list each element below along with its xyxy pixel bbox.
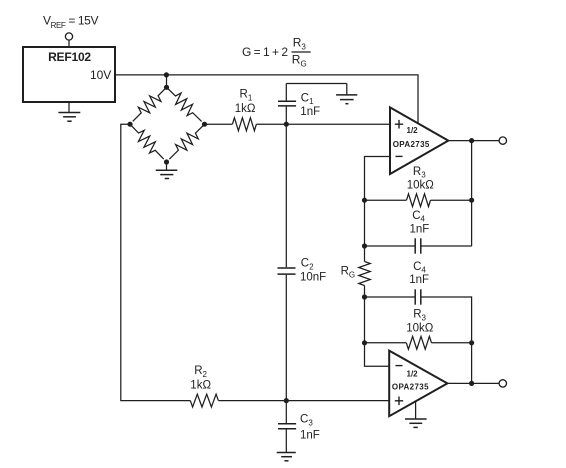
svg-text:G = 1 + 2: G = 1 + 2 <box>242 45 288 59</box>
wire R2 to op-amp U1b plus input <box>218 400 389 402</box>
voltage reference U2 REF102 <box>23 47 115 102</box>
node output U1a <box>469 138 474 143</box>
node bridge bottom <box>164 159 169 164</box>
svg-text:1kΩ: 1kΩ <box>235 103 256 115</box>
wire 10V rail to op-amp U1a V+ <box>115 75 418 124</box>
op-amp U1a OPA2735 <box>390 107 448 174</box>
svg-text:1nF: 1nF <box>409 274 429 286</box>
ground below C3 <box>277 453 296 461</box>
resistor R3 top feedback <box>365 166 472 207</box>
capacitor C2 <box>278 124 327 400</box>
wire right feedback column bottom <box>470 297 473 383</box>
wire bridge left to left column down to R2 <box>121 124 191 400</box>
wire rail to bridge top <box>166 75 168 87</box>
svg-text:1nF: 1nF <box>300 106 320 118</box>
svg-text:1nF: 1nF <box>410 224 430 236</box>
svg-text:10kΩ: 10kΩ <box>407 180 435 192</box>
svg-text:10V: 10V <box>90 68 111 82</box>
wire op-amp U1a output <box>448 140 499 142</box>
node bridge left <box>127 122 132 127</box>
wire bridge right to R1 <box>205 123 233 125</box>
ground right of C1 <box>336 84 357 104</box>
svg-text:1/2: 1/2 <box>407 126 419 135</box>
node junction rail/bridge <box>164 72 169 77</box>
label VREF = 15V <box>43 14 98 30</box>
wire C1 top to ground <box>286 83 347 85</box>
terminal output bottom open circle <box>499 380 506 387</box>
ground below bridge <box>156 162 178 179</box>
capacitor C4 top <box>365 210 472 254</box>
node R3 bottom right <box>469 340 474 345</box>
bridge resistor bottom-right <box>165 120 209 163</box>
node R3 bottom left <box>362 340 367 345</box>
capacitor C3 <box>278 401 320 453</box>
fraction bar of gain formula <box>292 51 311 53</box>
svg-text:OPA2735: OPA2735 <box>392 383 429 392</box>
svg-text:1/2: 1/2 <box>407 370 419 379</box>
resistor R3 bottom feedback <box>365 309 472 349</box>
terminal output top open circle <box>499 137 506 144</box>
capacitor C4 bottom <box>365 261 472 305</box>
wire op-amp U1b output <box>447 382 499 384</box>
svg-text:1kΩ: 1kΩ <box>190 380 211 392</box>
terminal VREF open circle <box>65 33 72 40</box>
svg-text:1nF: 1nF <box>300 429 320 441</box>
capacitor C1 <box>278 84 320 125</box>
svg-text:REF102: REF102 <box>48 50 91 64</box>
node C4 top left <box>362 243 367 248</box>
svg-text:10kΩ: 10kΩ <box>406 323 434 335</box>
node output U1b <box>469 381 474 386</box>
ground below op-amp U1b <box>405 401 427 427</box>
wire output U1a down right feedback column <box>471 141 473 246</box>
resistor R1 <box>232 118 256 131</box>
bridge resistor top-left <box>129 83 171 125</box>
wire left feedback column bottom <box>365 297 390 366</box>
wire op-amp U1a minus input to feedback column <box>365 157 391 201</box>
node R3 top right <box>469 198 474 203</box>
resistor RG <box>341 246 371 297</box>
label gain formula G = 1 + 2 R3/RG <box>242 35 307 68</box>
svg-text:OPA2735: OPA2735 <box>393 140 430 149</box>
bridge resistor top-right <box>162 83 205 126</box>
wire left feedback column top <box>364 200 366 246</box>
wire VREF terminal to REF102 <box>68 40 70 47</box>
node RG bottom <box>362 294 367 299</box>
node bridge top <box>164 85 169 90</box>
ground below REF102 <box>58 102 80 121</box>
node R3 top left <box>362 198 367 203</box>
bridge resistor bottom-left <box>126 120 168 163</box>
node bridge right <box>202 122 207 127</box>
node A junction R1/C1/C2 <box>284 122 289 127</box>
node B junction R2/C2/C3 <box>284 398 289 403</box>
wire R1 to op-amp U1a plus input <box>256 123 390 125</box>
svg-text:10nF: 10nF <box>300 271 326 283</box>
resistor R2 <box>190 365 218 407</box>
op-amp U1b OPA2735 <box>389 351 447 417</box>
